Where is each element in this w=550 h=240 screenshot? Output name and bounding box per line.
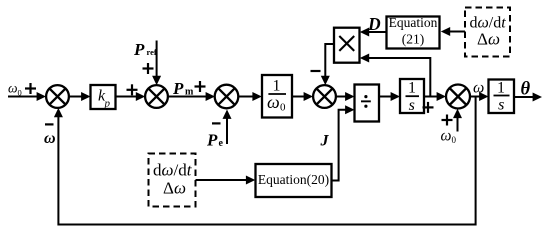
svg-text:0: 0 [280,102,286,114]
wire Pe input [223,110,232,145]
plus sign S1 left input [25,83,36,94]
summer S3 [215,85,239,109]
svg-text:Equation(20): Equation(20) [258,172,329,187]
wire multiplier output to S4 [321,44,334,85]
wire S4 to divider [336,92,355,101]
svg-text:p: p [104,98,111,110]
gain block kp [91,85,116,110]
svg-text:(21): (21) [402,32,425,47]
wire feedback ω bottom loop [54,97,476,225]
multiplier block × [334,28,360,63]
wire S5 to integrator 2 [470,92,489,101]
node ω0 label below S5 [441,128,457,146]
wire J input from Equation(20) [332,105,355,180]
summer S1 [46,85,69,108]
wire S3 to 1/ω0 block [238,92,261,101]
svg-text:P: P [206,131,218,150]
svg-text:P: P [133,40,145,59]
svg-text:J: J [320,133,330,150]
wire S1 to kp [69,92,91,101]
dashed box dω/dt Δω top right [465,8,510,57]
svg-text:Δω: Δω [477,29,500,48]
wire ω0 input to S5 [453,109,462,132]
wire dashed box to Equation(21) [441,27,465,36]
svg-text:θ: θ [521,80,531,100]
svg-text:e: e [219,138,224,149]
wire Equation(21) to multiplier [360,28,387,37]
divider block ÷ [355,85,380,122]
svg-text:P: P [172,79,184,98]
svg-text:m: m [185,87,194,98]
minus sign S3 bottom input [212,122,221,124]
wire output θ [514,93,542,102]
svg-text:1: 1 [497,79,505,96]
summer S4 [313,85,336,108]
node Pref label [133,40,157,59]
svg-text:dω/dt: dω/dt [153,161,193,180]
wire S2 to S3 with Pm [168,92,215,101]
plus sign S3 left input [195,81,206,92]
svg-text:0: 0 [18,88,22,98]
Equation (21) block [387,15,440,49]
wire Δω tap to multiplier [360,54,431,97]
wire 1/ω0 to S4 [292,92,313,101]
wire dashed box to Equation(20) [196,176,256,185]
svg-text:s: s [498,97,504,114]
block 1/ω0 [262,75,292,118]
integrator block 1/s second [489,79,515,113]
wire divider to integrator 1 [379,92,400,101]
plus sign S5 bottom input [442,115,453,126]
svg-text:1: 1 [408,80,416,97]
plus sign S2 left input [127,84,138,95]
plus sign S5 left input [423,102,434,113]
summer S5 [446,85,470,109]
dashed box dω/dt Δω bottom [149,154,196,207]
svg-text:ω: ω [44,130,56,147]
svg-text:s: s [409,97,415,114]
plus sign S2 top input [143,63,154,74]
wire input ω0 [8,92,46,101]
node Pm label [172,79,194,98]
wire integrator1 to S5 [424,92,446,101]
wire Pref input [152,41,161,86]
wire kp to S2 [116,92,146,101]
svg-text:ω: ω [8,81,18,96]
minus sign S1 bottom input [45,123,54,125]
svg-text:ref: ref [147,47,157,57]
integrator block 1/s first [400,79,424,114]
node Pe label [206,131,224,150]
minus sign S4 top input [311,70,321,72]
svg-text:Δω: Δω [163,179,186,198]
Equation (20) block [256,164,332,197]
node ω0 input label [8,81,22,98]
svg-text:0: 0 [452,135,457,145]
summer S2 [145,85,168,108]
svg-text:ω: ω [267,92,280,112]
svg-text:ω: ω [441,128,452,145]
svg-text:Equation: Equation [389,15,438,30]
